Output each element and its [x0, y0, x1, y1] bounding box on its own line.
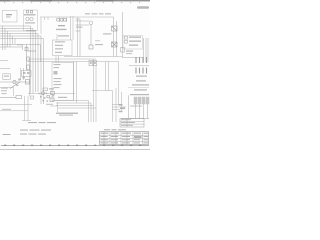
riser into junction [121, 92, 123, 112]
fused cutout X1 [112, 26, 118, 31]
distribution cabinet U2 [52, 63, 74, 101]
X2 label [95, 44, 103, 45]
potential transformer risers [114, 17, 117, 57]
meter V1, meter V2 [26, 17, 33, 20]
meter label row [25, 22, 35, 23]
X1 label [103, 33, 112, 34]
pole label row [24, 14, 36, 15]
general notes text [3, 122, 57, 135]
left margin note [2, 109, 11, 110]
control cabinet label [58, 35, 69, 36]
feeder text [1, 90, 7, 91]
left drop wires [0, 96, 32, 121]
heater bank HB1 caption [130, 94, 149, 95]
heater bank HB1 elements [134, 97, 149, 104]
aux contact blob B [23, 77, 26, 79]
harness risers to control cluster [31, 26, 44, 104]
riser to right panel [122, 12, 124, 58]
hv feeder line [40, 17, 114, 34]
generator bus wire [0, 81, 30, 83]
HB1 drop wires [129, 95, 148, 118]
terminal bank TB1 row 1 [136, 57, 147, 63]
collector wire [121, 118, 149, 120]
shunt tag on left feeder [0, 96, 22, 99]
disconnect blade [10, 82, 20, 89]
main bus horizontals [28, 57, 122, 62]
incoming service poles (fuse F1, fuse F2) [26, 10, 32, 13]
pilot device box [22, 71, 32, 77]
drawing index table [120, 119, 144, 128]
TB1 caption [136, 76, 147, 77]
ammeter A1 [13, 80, 16, 83]
contactor C1 [26, 80, 30, 85]
meter tag [76, 27, 83, 28]
right panel internals: relay list rows [123, 36, 143, 50]
secondary risers [71, 16, 74, 40]
instrument label box B3 [3, 74, 11, 80]
aux contact box K2 [89, 45, 93, 49]
aux contact blob C [16, 85, 19, 87]
watt-hour meter M1 [89, 21, 93, 45]
panel feed risers [122, 38, 148, 62]
title caption dotted row [104, 129, 126, 130]
control relay cluster CR [39, 88, 55, 105]
ground tag text [2, 93, 7, 94]
spare tag [95, 39, 100, 42]
TB1 mid rail [129, 65, 149, 67]
revision note (handwritten, top right corner) [137, 6, 149, 9]
3-phase transformer bank T1 [57, 17, 67, 22]
meter stack label [121, 48, 134, 55]
sheet bottom border line [1, 145, 149, 146]
tap label [17, 44, 22, 45]
cluster feed wires [28, 94, 75, 113]
top border zone tick labels [4, 2, 140, 4]
divider wire [128, 87, 149, 89]
lower weave wires [0, 44, 41, 69]
U1 text rows [55, 41, 65, 53]
top scan edge bar [0, 0, 150, 2]
caption text under diagram [56, 113, 78, 116]
transformer kV label [58, 25, 65, 26]
control cabinet feed wire [56, 34, 58, 40]
secondary drop wires [56, 56, 59, 63]
center riser wires [74, 59, 119, 108]
feeder label [58, 97, 67, 98]
bus tag [28, 51, 36, 52]
nested return bundle [54, 101, 96, 123]
switchboard ladder [76, 17, 90, 57]
junction cluster left of HB1 [119, 104, 126, 112]
line tap switch S1 [25, 44, 29, 70]
pilot device risers [21, 60, 30, 96]
lower horizontal tie wires [92, 88, 126, 122]
bottom scan edge [0, 148, 150, 151]
HB1 sub caption [130, 106, 142, 107]
left wire weave bundle [0, 26, 44, 50]
phase tag text [1, 88, 8, 89]
aux contact blob A [18, 79, 21, 81]
transformer rating label [56, 29, 67, 30]
title block [100, 132, 149, 145]
note box upper left [2, 11, 17, 23]
terminal bank TB1 row 2 [136, 68, 147, 74]
metering cabinet enclosure [24, 10, 38, 31]
terminal lug box [31, 96, 34, 99]
neutral wire [0, 88, 14, 97]
spare wire [0, 110, 28, 112]
right margin notes [132, 80, 149, 90]
transformer X2 [112, 42, 118, 47]
feeder tag texts in cabinet [54, 64, 62, 88]
bus label text [85, 13, 111, 14]
lower label row [26, 30, 36, 31]
junction box at bus [89, 61, 97, 66]
control cabinet U1 [53, 40, 73, 56]
